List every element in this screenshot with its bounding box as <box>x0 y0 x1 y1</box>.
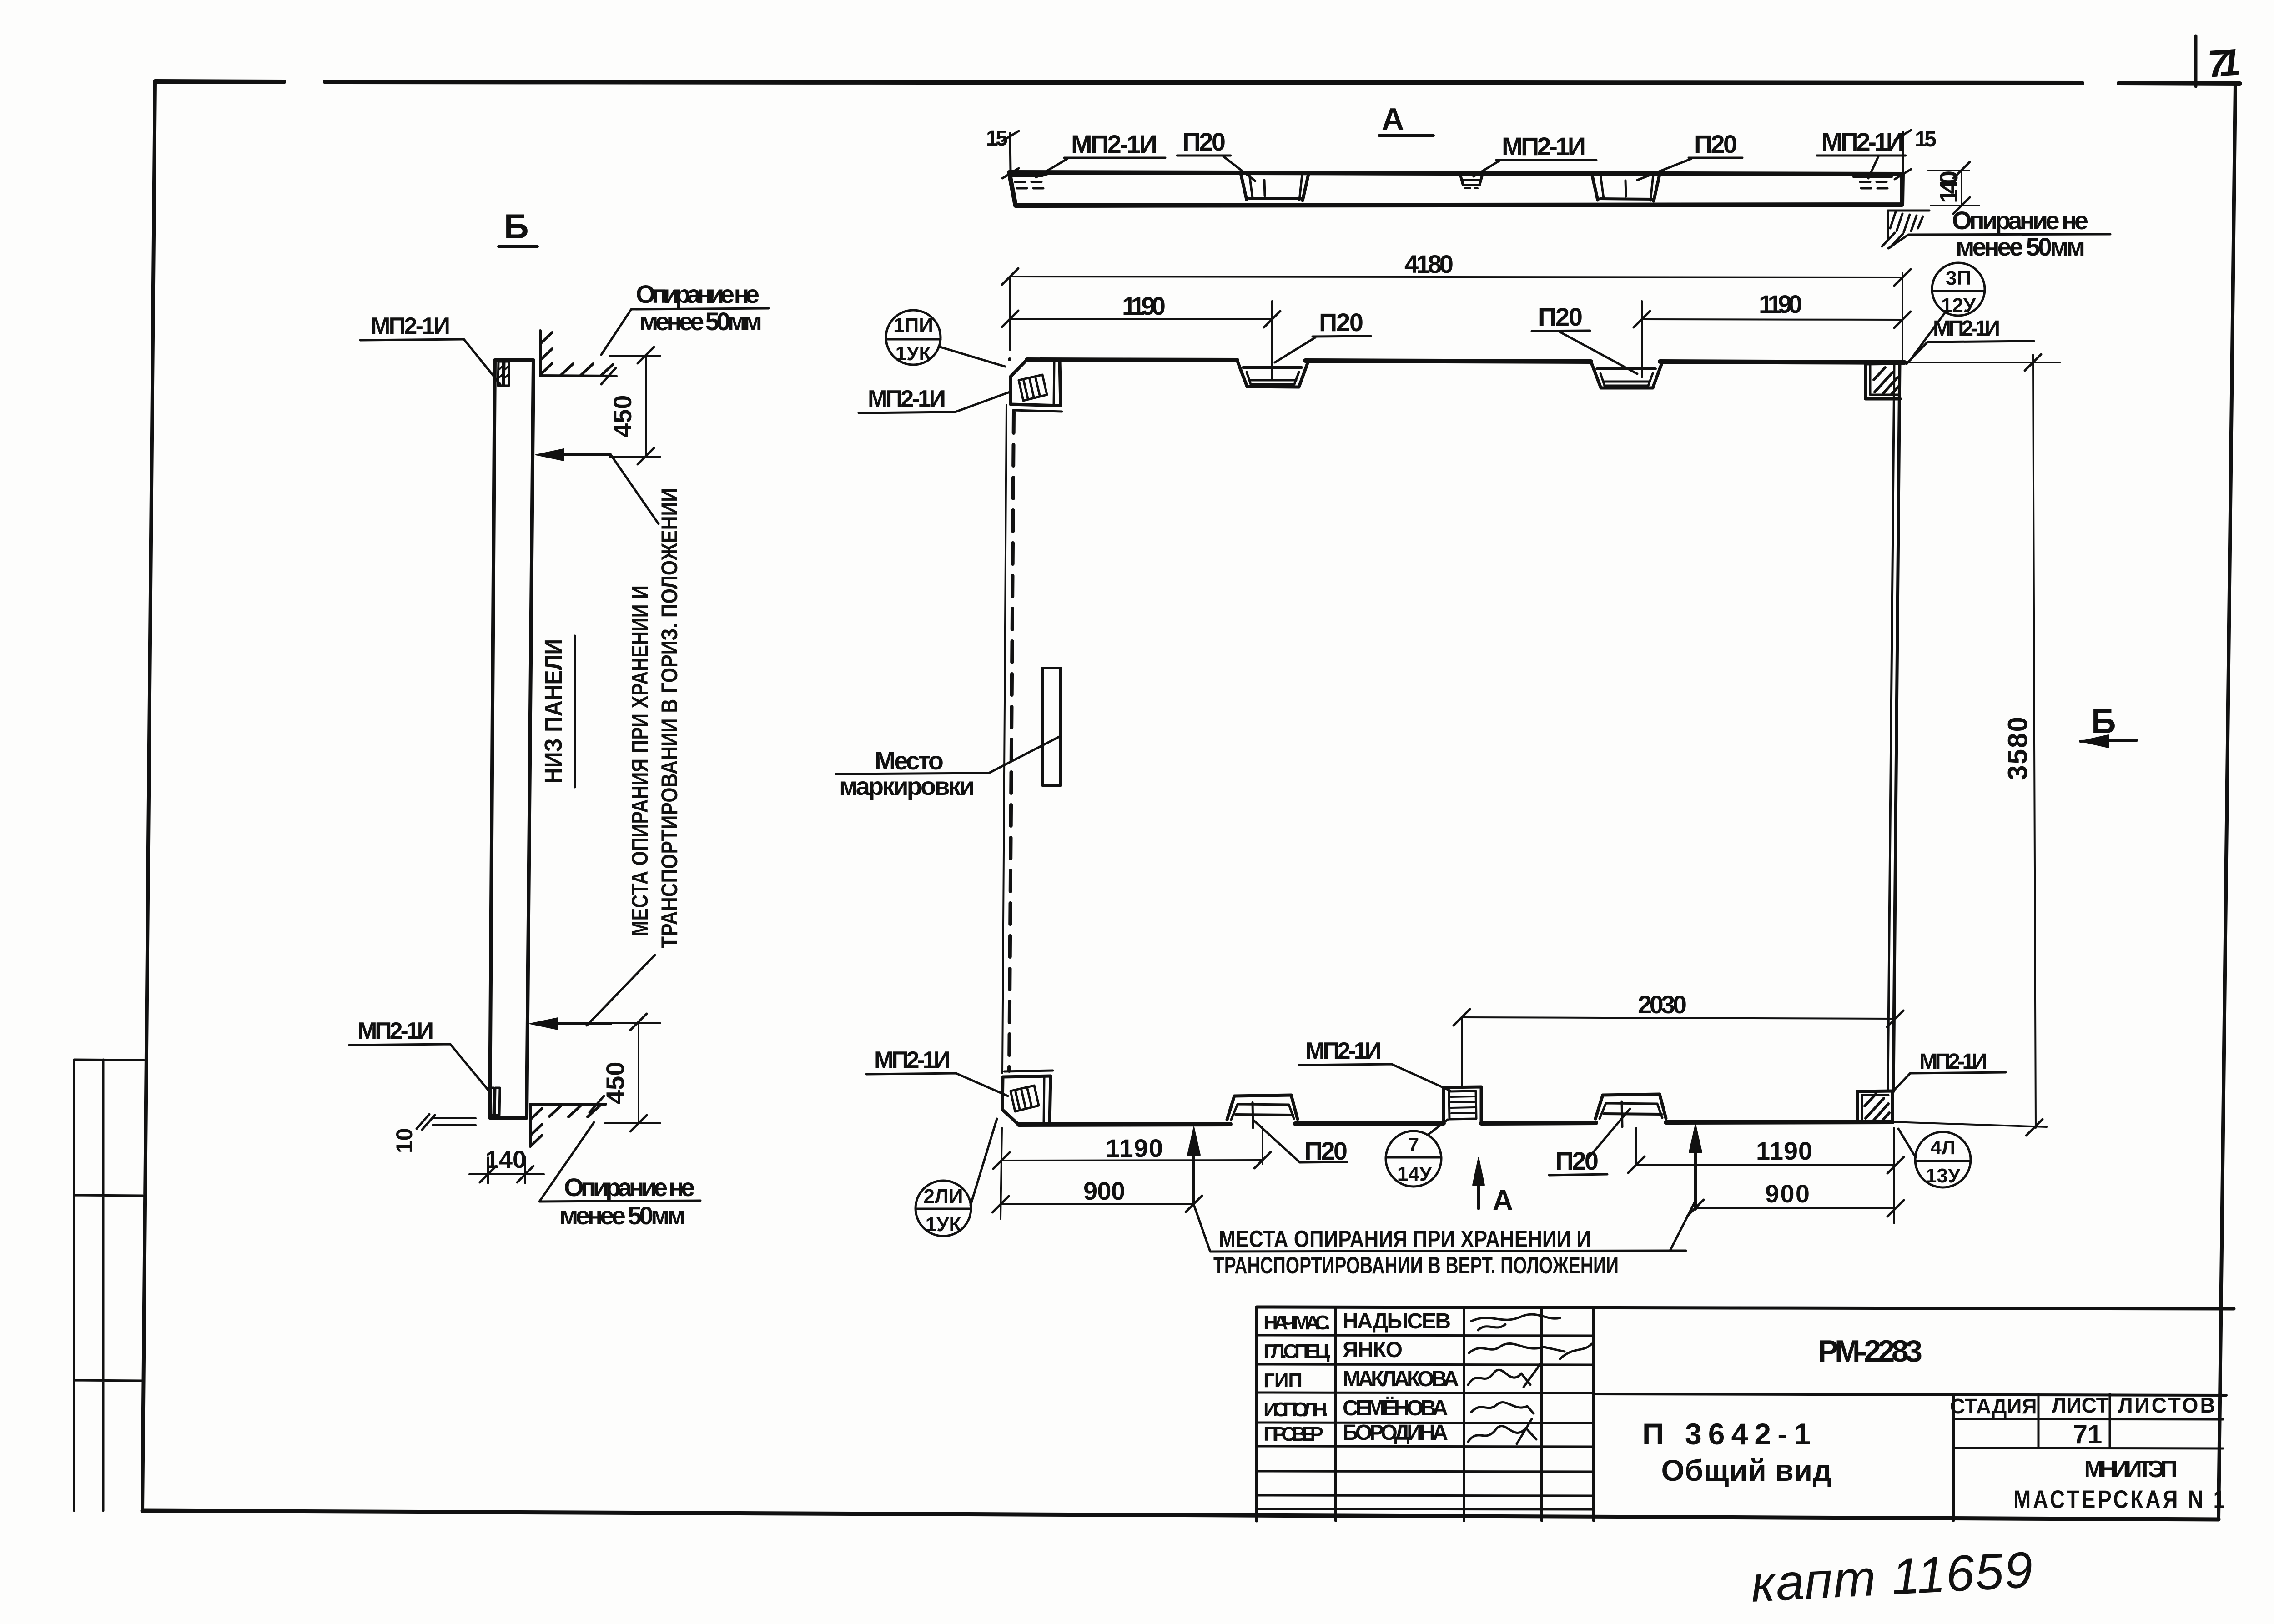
hatch TR <box>1874 367 1898 395</box>
svg-text:3П: 3П <box>1946 267 1971 289</box>
svg-text:4180: 4180 <box>1404 250 1454 278</box>
svg-text:МП2-1И: МП2-1И <box>1933 317 2000 341</box>
notch P20 bottom-left on panel <box>1227 1095 1298 1128</box>
dim 4180 <box>1002 268 1911 286</box>
sheet frame right border <box>2219 84 2235 1518</box>
corner box TR (MP2-1I) <box>1866 363 1900 399</box>
dim 1190 bottom right <box>1628 1156 1904 1173</box>
svg-text:Место: Место <box>875 746 944 775</box>
svg-text:МП2-1И: МП2-1И <box>1071 130 1157 158</box>
support arrow left top (450 mark) <box>536 449 659 524</box>
dim 3580 right <box>1892 354 2060 1136</box>
extension lines top <box>1010 273 1902 380</box>
svg-text:Общий вид: Общий вид <box>1661 1453 1832 1487</box>
svg-text:П20: П20 <box>1694 130 1737 158</box>
bottom MP2-1I plate in section B <box>489 1088 500 1115</box>
dim 140 bottom <box>469 1157 544 1183</box>
embedded plate MP2-1I left (dashed) <box>1015 182 1045 188</box>
sheet frame bottom border <box>142 1511 2219 1519</box>
svg-text:15: 15 <box>986 126 1008 151</box>
15 tick right <box>1902 132 1904 173</box>
left margin mini table <box>74 1060 144 1511</box>
svg-text:Опирание не: Опирание не <box>1952 206 2088 235</box>
dim 1190 top left <box>1002 311 1280 327</box>
svg-text:1190: 1190 <box>1106 1134 1163 1162</box>
dim 2030 bottom <box>1454 1009 1903 1087</box>
svg-text:14У: 14У <box>1397 1163 1432 1185</box>
svg-text:П20: П20 <box>1319 308 1363 337</box>
svg-text:1190: 1190 <box>1756 1136 1812 1165</box>
svg-text:1ПИ: 1ПИ <box>893 314 933 337</box>
svg-text:менее 50мм: менее 50мм <box>559 1201 686 1230</box>
svg-text:10: 10 <box>392 1128 417 1153</box>
bottom support floor hatch <box>530 1096 606 1146</box>
svg-text:ЯНКО: ЯНКО <box>1343 1338 1403 1362</box>
svg-text:2ЛИ: 2ЛИ <box>924 1185 963 1207</box>
bottom center anchor plate (7) <box>1444 1087 1481 1123</box>
top MP2-1I plate in section B <box>498 362 509 386</box>
svg-text:МП2-1И: МП2-1И <box>1821 127 1904 156</box>
svg-text:П20: П20 <box>1555 1146 1599 1175</box>
svg-text:71: 71 <box>2206 40 2242 85</box>
svg-text:ИСПОЛН.: ИСПОЛН. <box>1263 1398 1328 1421</box>
svg-text:1УК: 1УК <box>926 1213 961 1236</box>
svg-text:МНИИТЭП: МНИИТЭП <box>2084 1456 2178 1483</box>
svg-text:Опирание не: Опирание не <box>636 280 760 308</box>
circle mark 2LI/1UK <box>916 1119 997 1236</box>
dim 450 bottom <box>605 1014 660 1131</box>
dim 1190 bottom left <box>993 1152 1271 1169</box>
embedded plate MP2-1I right (dashed) <box>1860 182 1891 188</box>
dim 10 joint bottom left <box>417 1114 476 1130</box>
svg-text:МАСТЕРСКАЯ N 1: МАСТЕРСКАЯ N 1 <box>2013 1485 2227 1513</box>
dim 900 bottom right <box>1687 1200 1904 1217</box>
svg-text:А: А <box>1382 102 1404 136</box>
hatched insert TL <box>1019 375 1047 401</box>
svg-text:маркировки: маркировки <box>839 772 975 800</box>
svg-text:БОРОДИНА: БОРОДИНА <box>1343 1421 1448 1445</box>
dim 140 right of section A <box>1928 162 1979 214</box>
svg-text:СЕМЁНОВА: СЕМЁНОВА <box>1343 1396 1448 1420</box>
sheet frame left border <box>142 81 155 1511</box>
panel top edge <box>1027 360 1905 362</box>
svg-text:МП2-1И: МП2-1И <box>357 1018 434 1044</box>
svg-text:МЕСТА ОПИРАНИЯ ПРИ ХРАНЕНИИ И: МЕСТА ОПИРАНИЯ ПРИ ХРАНЕНИИ И <box>1219 1226 1591 1252</box>
dim 1190 top right <box>1634 311 1911 328</box>
notch P20 top-right on panel <box>1591 362 1662 388</box>
svg-text:12У: 12У <box>1941 294 1976 317</box>
notch P20 bottom-right on panel <box>1595 1094 1666 1127</box>
circle mark 3P/12U <box>1910 263 1985 360</box>
svg-text:1190: 1190 <box>1759 290 1802 318</box>
svg-text:1190: 1190 <box>1122 292 1166 320</box>
title block texts <box>1263 1309 2227 1513</box>
svg-text:МП2-1И: МП2-1И <box>1502 132 1586 161</box>
extension lines bottom left <box>1001 1127 1894 1223</box>
support arrow up (right 900) <box>1689 1124 1702 1209</box>
sheet frame top border <box>155 81 2240 84</box>
notch P20 top-left on panel <box>1237 360 1308 387</box>
svg-text:ЛИСТ: ЛИСТ <box>2052 1393 2109 1417</box>
svg-text:4Л: 4Л <box>1930 1136 1955 1159</box>
svg-text:менее 50мм: менее 50мм <box>1956 232 2085 261</box>
notch A2 small (MP2-1I anchor) <box>1460 173 1483 185</box>
svg-text:15: 15 <box>1915 127 1937 151</box>
panel strip outline <box>490 360 533 1118</box>
svg-text:13У: 13У <box>1926 1165 1961 1187</box>
svg-text:900: 900 <box>1765 1179 1810 1208</box>
svg-text:П20: П20 <box>1182 127 1226 156</box>
panel left edge: thin solid + dashed hidden line <box>1002 330 1014 1073</box>
svg-text:МП2-1И: МП2-1И <box>1305 1038 1382 1064</box>
svg-text:НАЧ МАС.: НАЧ МАС. <box>1263 1312 1331 1334</box>
svg-text:Опирание не: Опирание не <box>564 1173 695 1202</box>
svg-text:ПРОВЕР: ПРОВЕР <box>1263 1423 1323 1445</box>
corner box TL (MP2-1I) <box>1011 360 1062 412</box>
svg-text:ЛИСТОВ: ЛИСТОВ <box>2118 1393 2217 1417</box>
title block outer + left signature table <box>1257 1307 2234 1521</box>
dim 900 bottom left <box>992 1196 1202 1212</box>
svg-text:ТРАНСПОРТИРОВАНИИ В ВЕРТ. П: ТРАНСПОРТИРОВАНИИ В ВЕРТ. ПОЛОЖЕНИИ <box>1213 1252 1619 1279</box>
svg-text:НИЗ ПАНЕЛИ: НИЗ ПАНЕЛИ <box>540 639 567 784</box>
15 tick left <box>1010 133 1011 172</box>
marking place rectangle <box>1042 668 1061 785</box>
svg-text:П20: П20 <box>1304 1136 1348 1165</box>
svg-text:ТРАНСПОРТИРОВАНИИ В ГОРИЗ. ПОЛ: ТРАНСПОРТИРОВАНИИ В ГОРИЗ. ПОЛОЖЕНИИ <box>657 488 682 948</box>
circle mark 7/14U <box>1386 1120 1448 1187</box>
support arrow up (left 900) <box>1187 1127 1200 1205</box>
svg-text:МАКЛАКОВА: МАКЛАКОВА <box>1343 1367 1459 1391</box>
svg-text:ГИП: ГИП <box>1263 1369 1303 1392</box>
notch A3 (P20) <box>1592 174 1660 201</box>
circle mark 1PI/1UK <box>886 310 1005 367</box>
svg-text:НАДЫСЕВ: НАДЫСЕВ <box>1343 1309 1451 1333</box>
section arrow A bottom <box>1473 1157 1484 1209</box>
hatch BR <box>1865 1094 1889 1121</box>
leader tick in notch A1 <box>1264 180 1265 196</box>
svg-text:ГЛ.СПЕЦ.: ГЛ.СПЕЦ. <box>1263 1340 1332 1363</box>
svg-text:7: 7 <box>1408 1134 1419 1156</box>
panel bottom edge <box>1019 1122 1892 1125</box>
svg-text:140: 140 <box>1934 171 1963 203</box>
svg-text:МП2-1И: МП2-1И <box>371 313 450 339</box>
svg-text:РМ-2283: РМ-2283 <box>1818 1334 1922 1368</box>
hatched insert BL <box>1011 1086 1039 1111</box>
leader tick in notch A3 <box>1625 181 1626 196</box>
circle mark 4L/13U <box>1898 1129 1971 1187</box>
support arrow left bottom <box>530 955 655 1030</box>
page number tick top right <box>2194 36 2198 86</box>
svg-text:А: А <box>1493 1185 1513 1216</box>
strip A inner top face line left part <box>1011 173 1051 176</box>
dim 450 top <box>609 347 660 464</box>
svg-text:Б: Б <box>2091 702 2116 741</box>
support hatch below right end of section A <box>1882 211 1929 247</box>
svg-text:МП2-1И: МП2-1И <box>868 386 946 412</box>
svg-text:МП2-1И: МП2-1И <box>874 1047 951 1073</box>
title block right part dividers <box>1594 1394 2226 1395</box>
svg-text:МП2-1И: МП2-1И <box>1919 1050 1987 1074</box>
svg-text:1УК: 1УК <box>896 342 931 365</box>
svg-text:2030: 2030 <box>1638 990 1687 1019</box>
svg-text:140: 140 <box>485 1146 526 1173</box>
svg-text:П20: П20 <box>1538 302 1583 331</box>
corner box BR (MP2-1I) <box>1857 1091 1892 1122</box>
corner box BL (MP2-1I) <box>1002 1071 1053 1125</box>
svg-text:71: 71 <box>2073 1420 2103 1449</box>
notch A1 (P20) <box>1241 173 1308 201</box>
svg-text:450: 450 <box>608 395 637 437</box>
strip A outline <box>1009 172 1902 206</box>
signatures squiggles <box>1468 1314 1592 1444</box>
panel right edge double line <box>1893 362 1900 1091</box>
svg-text:менее 50мм: менее 50мм <box>639 307 762 336</box>
top support wall hatch <box>540 331 616 384</box>
svg-text:СТАДИЯ: СТАДИЯ <box>1950 1394 2037 1418</box>
svg-text:900: 900 <box>1083 1177 1125 1205</box>
svg-text:450: 450 <box>601 1062 629 1104</box>
svg-text:МЕСТА ОПИРАНИЯ ПРИ ХРАНЕНИИ И: МЕСТА ОПИРАНИЯ ПРИ ХРАНЕНИИ И <box>627 585 653 936</box>
svg-text:Б: Б <box>504 207 529 246</box>
